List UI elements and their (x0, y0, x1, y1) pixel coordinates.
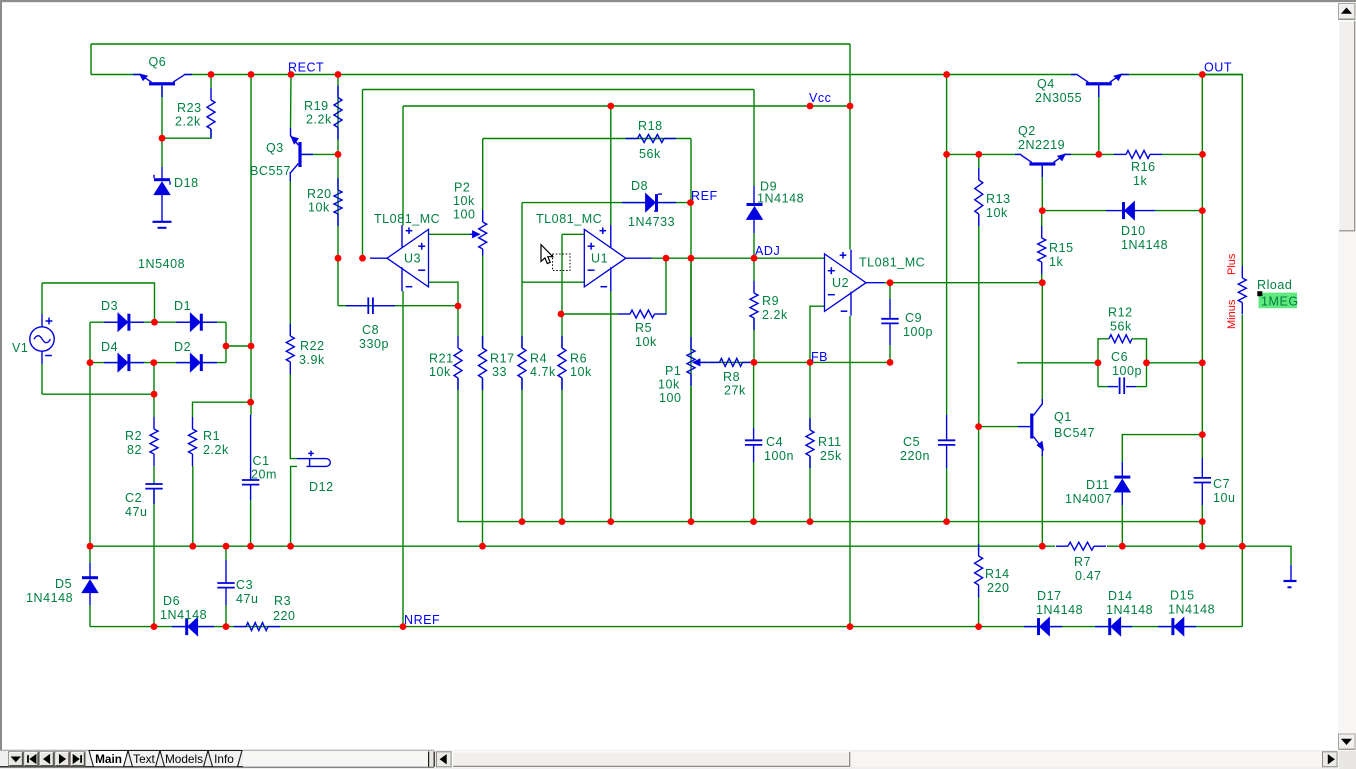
hscrollbar thumb (453, 752, 851, 767)
resistor R2 (153, 417, 155, 429)
junction midrail-C7 (1199, 518, 1206, 525)
wire R5 row (561, 313, 618, 315)
wire R1 top row (193, 402, 251, 417)
svg-text:ADJ: ADJ (755, 244, 780, 258)
wire C6 row stub left (1098, 386, 1108, 388)
potentiometer P1 (690, 337, 692, 349)
wire Q2 emitter to Q4 base node (1065, 153, 1099, 155)
svg-text:Main: Main (95, 752, 122, 766)
svg-text:Rload: Rload (1257, 278, 1292, 292)
capacitor C3 (225, 560, 227, 583)
wire P2 column upper (482, 139, 484, 211)
wire bridge left column (89, 322, 91, 546)
nav button last (71, 752, 86, 766)
wire R11 column (809, 362, 811, 430)
hscrollbar left button (437, 752, 452, 767)
wire RECT rail mid (185, 74, 1076, 76)
wire V1 top lead (41, 283, 43, 314)
svg-text:56k: 56k (1110, 320, 1132, 334)
svg-text:2N2219: 2N2219 (1018, 138, 1065, 152)
svg-text:D17: D17 (1037, 589, 1062, 603)
vscrollbar track (1338, 2, 1356, 750)
wire x947 from RECT (946, 75, 948, 416)
wire R12C6 row right (1147, 362, 1203, 364)
resistor R8 (708, 361, 720, 363)
svg-text:U1: U1 (591, 252, 608, 266)
resistor Rload (1241, 266, 1243, 278)
junction U2out-C9 (887, 279, 894, 286)
wire FB to U2 inv (810, 306, 825, 362)
diode D17 (1040, 618, 1049, 635)
diode D6 (188, 618, 197, 635)
junction RECT-R19 (335, 71, 342, 78)
svg-text:R16: R16 (1131, 160, 1156, 174)
svg-text:C1: C1 (253, 454, 270, 468)
wire rail to ground (1242, 546, 1291, 565)
tab Info (208, 751, 242, 767)
svg-text:BC547: BC547 (1054, 426, 1095, 440)
svg-text:Q4: Q4 (1037, 77, 1055, 91)
svg-text:10k: 10k (570, 365, 592, 379)
op-amp U2 (825, 254, 867, 312)
junction R8-R9-C4 (751, 359, 758, 366)
wire R6 bottom (561, 378, 563, 522)
wire D12 return (291, 466, 297, 546)
wire U1 noninv row (562, 233, 584, 235)
wire U2 output lead (866, 282, 884, 284)
svg-text:Models: Models (165, 752, 203, 766)
wire R17 bottom (482, 378, 484, 546)
wire Q1 base row (979, 426, 1018, 428)
wire U3 Vminus rail to NREF (402, 291, 404, 627)
transistor Q4 (1086, 82, 1112, 85)
transistor Q3 (298, 142, 301, 167)
svg-text:0.47: 0.47 (1075, 569, 1102, 583)
svg-text:Q3: Q3 (266, 141, 284, 155)
svg-text:C8: C8 (362, 323, 379, 337)
svg-text:2.2k: 2.2k (306, 113, 332, 127)
svg-text:TL081_MC: TL081_MC (859, 256, 925, 270)
window top border (0, 0, 1356, 2)
svg-text:20m: 20m (251, 468, 277, 482)
junction RECT-x251 (248, 71, 255, 78)
svg-text:C9: C9 (905, 311, 922, 325)
diode D2 (191, 354, 200, 371)
svg-text:TL081_MC: TL081_MC (536, 212, 602, 226)
junction R16-OUT (1199, 151, 1206, 158)
wire REF rail x691 (690, 139, 692, 522)
svg-text:1N4148: 1N4148 (757, 192, 804, 206)
svg-text:100p: 100p (1112, 364, 1142, 378)
resistor R4 (521, 336, 523, 348)
junction midrail-P1 (688, 518, 695, 525)
nav button first (24, 752, 39, 766)
junction Q1base-R13-R14 (975, 423, 982, 430)
junction midrail-R11 (807, 518, 814, 525)
svg-text:D12: D12 (309, 480, 334, 494)
transistor Q2 (1029, 162, 1055, 165)
svg-text:C2: C2 (125, 491, 142, 505)
wire Q3 base to R20 (302, 153, 338, 155)
junction R12C6 right (1143, 359, 1150, 366)
wire R6 column (561, 314, 563, 348)
capacitor C2 (145, 483, 162, 485)
wire U2 Vminus rail (849, 316, 851, 627)
op-amp U3 (387, 229, 429, 287)
junction NREF-C3-D6 (223, 623, 230, 630)
wire D18 to ground (161, 194, 163, 221)
capacitor C4 (753, 428, 755, 440)
svg-text:R19: R19 (304, 99, 329, 113)
svg-text:D6: D6 (163, 594, 180, 608)
resistor R20 (337, 178, 339, 190)
svg-text:V1: V1 (12, 341, 28, 355)
wire R14 bottom (978, 596, 980, 627)
diode D14 (1111, 618, 1120, 635)
junction NREF net (400, 623, 407, 630)
wire R16 row left (1099, 153, 1115, 155)
wire bridge row1 (90, 321, 226, 323)
junction OUT node (1199, 71, 1206, 78)
svg-text:Info: Info (214, 752, 234, 766)
wire U3 noninv to P2 wiper (429, 233, 471, 235)
ground right (1290, 565, 1292, 581)
resistor R13 (978, 168, 980, 180)
wire Q2 collector row (947, 153, 1020, 155)
wire x562 column (561, 234, 563, 314)
tab Text (128, 751, 160, 767)
junction FB-C9 (887, 359, 894, 366)
wire R23 top (210, 75, 212, 89)
wire x338 R19-R20-C8 (337, 75, 339, 306)
diode D5 (82, 576, 98, 579)
svg-text:1N4733: 1N4733 (628, 215, 675, 229)
svg-text:R9: R9 (762, 294, 779, 308)
junction bridge top (151, 319, 158, 326)
svg-text:1N4148: 1N4148 (1036, 603, 1083, 617)
hscrollbar right button (1323, 752, 1338, 767)
junction lowrail-D11 (1119, 543, 1126, 550)
bottom bar top edge (0, 749, 434, 751)
wire U3 Vplus rail (402, 106, 404, 226)
svg-text:D11: D11 (1086, 478, 1110, 492)
svg-text:C6: C6 (1111, 350, 1128, 364)
wire C3 top (225, 546, 227, 560)
svg-text:R4: R4 (530, 352, 547, 366)
junction lowrail-D5 (87, 543, 94, 550)
svg-text:D10: D10 (1121, 224, 1146, 238)
svg-text:BC557: BC557 (250, 164, 291, 178)
resistor R14 (978, 544, 980, 556)
svg-text:R3: R3 (274, 594, 291, 608)
wire C4 column (753, 362, 755, 428)
svg-text:1k: 1k (1133, 174, 1148, 188)
wire Rload bottom (1241, 315, 1243, 546)
capacitor C8 (346, 305, 368, 307)
wire low rail right (1107, 545, 1242, 547)
junction Vcc net (807, 103, 814, 110)
svg-text:1k: 1k (1049, 255, 1064, 269)
resistor R15 (1041, 226, 1043, 238)
wire D11 bottom (1121, 505, 1123, 546)
tabset empty area (243, 751, 428, 767)
wire Q1 emitter down (1041, 455, 1043, 546)
junction Vcc-U1rail (607, 103, 614, 110)
op-amp U1 (584, 229, 626, 287)
junction midrail-C4 (750, 518, 757, 525)
wire C7 bottom (1201, 505, 1203, 546)
svg-text:Plus: Plus (1226, 253, 1238, 275)
wire C9 column (889, 283, 891, 299)
svg-text:27k: 27k (724, 384, 746, 398)
svg-text:1N5408: 1N5408 (138, 257, 185, 271)
svg-text:C7: C7 (1213, 477, 1230, 491)
wire R4 column (521, 282, 523, 348)
capacitor C6 (1108, 377, 1136, 394)
tab Models (160, 751, 208, 767)
wire Vcc row y106 (403, 105, 850, 107)
wire top rail (91, 43, 850, 45)
svg-text:C4: C4 (766, 435, 783, 449)
svg-text:NREF: NREF (404, 613, 440, 627)
potentiometer P2 (482, 210, 484, 222)
capacitor C5 (946, 415, 948, 440)
junction midrail-R6 (559, 518, 566, 525)
junction V1minus node (151, 391, 158, 398)
capacitor C1 (250, 415, 252, 480)
svg-text:U2: U2 (832, 276, 849, 290)
wire D5 bottom (89, 605, 91, 627)
vscrollbar down button (1339, 734, 1356, 750)
transistor Q6 (149, 82, 175, 85)
junction midrail-U1rail (607, 518, 614, 525)
wire C9 bottom (889, 345, 891, 362)
junction D11row-x1202 (1199, 431, 1206, 438)
diode D4 (118, 354, 127, 371)
wire bridge out (226, 345, 251, 347)
junction U3out-R20 (335, 255, 342, 262)
svg-text:R21: R21 (429, 352, 454, 366)
svg-text:1N4148: 1N4148 (1106, 603, 1153, 617)
svg-text:10k: 10k (453, 194, 475, 208)
svg-text:D15: D15 (1170, 589, 1195, 603)
wire C6 row stub right (1136, 386, 1147, 388)
junction U3out-x362 (359, 255, 366, 262)
wire P1 column upper (690, 258, 692, 337)
svg-text:FB: FB (811, 350, 828, 364)
resistor R22 (289, 324, 291, 336)
svg-text:D4: D4 (101, 340, 118, 354)
wire NREF rail (90, 626, 1242, 628)
svg-text:1N4148: 1N4148 (160, 608, 207, 622)
resistor R9 (753, 281, 755, 293)
resistor R17 (482, 336, 484, 348)
svg-text:R22: R22 (300, 339, 325, 353)
svg-text:D2: D2 (174, 340, 191, 354)
junction lowrail-D12 (287, 543, 294, 550)
diode D1 (191, 314, 200, 331)
wire RECT rail right of Q4 (1121, 74, 1243, 76)
wire P2 to R17 (482, 256, 484, 349)
nav button prev (40, 752, 55, 766)
junction lowrail-C3 (223, 543, 230, 550)
svg-text:1MEG: 1MEG (1261, 295, 1299, 309)
bottom bar background (0, 750, 1338, 769)
wire x522 column (521, 203, 523, 283)
vscrollbar thumb (1339, 21, 1356, 231)
wire R23 bottom corner (162, 129, 211, 138)
junction Vcc-U2rail (847, 103, 854, 110)
window left border (0, 0, 2, 750)
svg-text:82: 82 (127, 443, 142, 457)
wire C5 bottom (946, 468, 948, 522)
resistor R3 (234, 626, 246, 628)
resistor R11 (809, 418, 811, 430)
svg-text:Q6: Q6 (149, 55, 167, 69)
nav button dropdown (9, 752, 24, 766)
wire RECT rail left (91, 74, 140, 76)
wire left drop from top rail (90, 44, 92, 75)
wire D10 row left (1042, 210, 1106, 212)
junction R15-Q1coll-U2out (1039, 279, 1046, 286)
wire bridge row2 (90, 362, 226, 364)
wire R22 to D12 (290, 374, 297, 459)
svg-text:R5: R5 (635, 321, 652, 335)
svg-text:D14: D14 (1108, 589, 1133, 603)
battery D12 (297, 458, 307, 460)
wire R12C6 row left (1017, 362, 1098, 364)
svg-text:220: 220 (273, 609, 296, 623)
svg-text:U3: U3 (404, 252, 421, 266)
diode D9 (747, 203, 763, 206)
junction R5-R6-U1plus (558, 311, 565, 318)
capacitor C7 (1201, 458, 1203, 478)
ground below D18 (153, 221, 172, 223)
junction NREF-R14 (975, 623, 982, 630)
wire U1 output lead (626, 257, 652, 259)
junction C8-R21-U3inv (455, 303, 462, 310)
scroll splitter (428, 752, 436, 767)
svg-text:10k: 10k (429, 365, 451, 379)
resistor R19 (337, 86, 339, 98)
wire R15 top (1041, 211, 1043, 226)
wire low rail left (90, 545, 1055, 547)
mouse cursor (541, 245, 553, 264)
svg-text:100n: 100n (764, 449, 794, 463)
svg-text:R23: R23 (177, 101, 202, 115)
svg-text:R20: R20 (307, 187, 332, 201)
svg-text:D5: D5 (55, 577, 72, 591)
junction REF (687, 199, 694, 206)
svg-text:Text: Text (133, 752, 155, 766)
wire D8 row (522, 202, 690, 204)
svg-text:R1: R1 (203, 429, 220, 443)
svg-text:R7: R7 (1074, 555, 1091, 569)
wire Q6 base down (161, 86, 163, 167)
wire R11 bottom (809, 456, 811, 522)
wire R18 row (483, 138, 691, 140)
wire R2 to C2 (153, 466, 155, 484)
svg-text:C5: C5 (903, 435, 920, 449)
svg-text:TL081_MC: TL081_MC (374, 212, 440, 226)
resistor R1 (192, 417, 194, 429)
resistor R5 (618, 313, 630, 315)
junction lowrail-R1 (189, 543, 196, 550)
resistor R18 (626, 138, 638, 140)
junction NREF-U2rail (847, 623, 854, 630)
diode D11 (1121, 462, 1123, 477)
wire R15 bottom (1041, 274, 1043, 283)
wire U2 output row (884, 282, 1042, 284)
svg-text:1N4148: 1N4148 (1168, 603, 1215, 617)
wire D10 row right (1155, 210, 1202, 212)
wire R16 row right (1161, 153, 1203, 155)
junction lowrail-Q1 (1039, 543, 1046, 550)
wire R13 to Q1 base node (978, 214, 980, 427)
junction ADJ (751, 255, 758, 262)
svg-text:3.9k: 3.9k (299, 353, 325, 367)
wire C8 row (338, 305, 458, 307)
svg-text:47u: 47u (236, 592, 259, 606)
svg-text:47u: 47u (125, 505, 148, 519)
svg-text:R18: R18 (638, 119, 663, 133)
wire R9 column (753, 258, 755, 281)
junction R1 top (247, 399, 254, 406)
junction U1out-R5 (663, 255, 670, 262)
svg-text:220n: 220n (900, 449, 930, 463)
diode D10 (1125, 202, 1134, 219)
wire R21 to mid rail (458, 378, 1202, 522)
diode D8 zener (646, 194, 655, 211)
wire D11 top row (1122, 435, 1202, 462)
resistor R21 (457, 336, 459, 348)
svg-text:33: 33 (492, 365, 507, 379)
diode D18 zener (161, 167, 163, 180)
svg-text:R8: R8 (723, 370, 740, 384)
junction x947-Q2row (943, 151, 950, 158)
wire R12 loop right (1132, 339, 1147, 387)
svg-text:Q1: Q1 (1054, 410, 1072, 424)
svg-text:10u: 10u (1213, 491, 1236, 505)
svg-text:56k: 56k (639, 147, 661, 161)
junction bridge right out (223, 343, 230, 350)
svg-text:220: 220 (987, 581, 1010, 595)
diode D3 (118, 314, 127, 331)
junction lowrail-C7 (1199, 543, 1206, 550)
svg-text:Minus: Minus (1226, 299, 1238, 329)
junction Q6base-R23-D18 (159, 135, 166, 142)
junction RECT-R23 (208, 71, 215, 78)
junction NREF-C2-D6 (151, 623, 158, 630)
wire Q1 collector up (1041, 283, 1043, 401)
wire U1 output row (652, 257, 825, 259)
wire Q2 base down (1041, 166, 1043, 211)
wire R4 bottom (521, 378, 523, 522)
nav button next (55, 752, 70, 766)
wire OUT drop x1202 (1201, 75, 1203, 459)
wire C4 bottom (753, 462, 755, 522)
wire U1 Vplus rail (610, 106, 612, 226)
svg-text:4.7k: 4.7k (530, 365, 556, 379)
svg-text:R11: R11 (818, 435, 842, 449)
svg-text:1N4148: 1N4148 (1121, 238, 1168, 252)
svg-text:R14: R14 (985, 567, 1010, 581)
wire FB row (700, 361, 891, 363)
wire D9 to ADJ (753, 233, 755, 258)
wire P1 bottom (690, 387, 692, 522)
svg-text:100p: 100p (903, 325, 933, 339)
wire R21 column (457, 306, 459, 336)
